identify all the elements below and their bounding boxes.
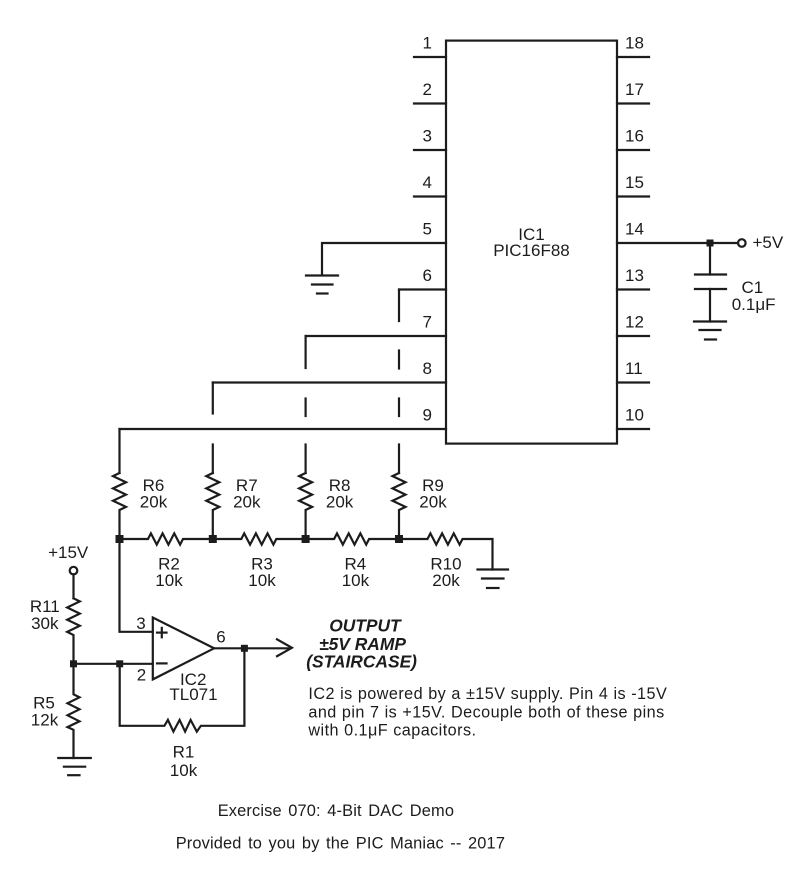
svg-text:R1: R1 (173, 743, 195, 762)
+15V terminal circle (70, 567, 78, 575)
junction node output/feedback (241, 645, 248, 652)
svg-text:18: 18 (625, 34, 644, 53)
svg-text:12k: 12k (31, 711, 59, 730)
svg-text:4: 4 (423, 173, 432, 192)
svg-text:0.1μF: 0.1μF (732, 295, 776, 314)
svg-text:8: 8 (423, 359, 432, 378)
svg-text:10k: 10k (170, 761, 198, 780)
svg-text:6: 6 (216, 628, 225, 647)
wire divider node to op-amp pin 2 (74, 663, 153, 665)
pin 9 stub wire (120, 428, 447, 430)
pin 2 stub (414, 102, 446, 104)
svg-text:3: 3 (423, 127, 432, 146)
svg-text:(STAIRCASE): (STAIRCASE) (306, 651, 417, 671)
ground (pin 5) (306, 276, 338, 294)
svg-text:5: 5 (423, 220, 432, 239)
resistor R10 20k (horizontal) and wire to ground (399, 533, 493, 569)
svg-text:1: 1 (423, 34, 432, 53)
op-amp U2 triangle (IC2 TL071) (153, 618, 214, 680)
junction node R9/R4/R10 (395, 535, 403, 543)
svg-text:7: 7 (423, 313, 432, 332)
svg-text:9: 9 (423, 406, 432, 425)
feedback wire and resistor R1 10k (120, 648, 245, 731)
pin 17 stub (617, 102, 649, 104)
pin 13 stub (617, 288, 649, 290)
svg-text:20k: 20k (419, 493, 447, 512)
svg-text:3: 3 (136, 614, 145, 633)
svg-text:12: 12 (625, 313, 644, 332)
svg-text:10k: 10k (342, 571, 370, 590)
resistor R6 20k (vertical) (113, 473, 126, 539)
svg-text:+15V: +15V (48, 543, 89, 562)
wire ladder output to op-amp pin 3 (120, 539, 153, 632)
svg-text:OUTPUT: OUTPUT (329, 616, 402, 636)
pin 8 stub wire (213, 381, 446, 383)
resistor R8 20k (vertical) (299, 473, 312, 539)
pin 14 wire to +5V (617, 242, 738, 244)
svg-text:and pin 7 is +15V. Decouple bo: and pin 7 is +15V. Decouple both of thes… (308, 703, 664, 721)
svg-text:14: 14 (625, 220, 644, 239)
svg-text:13: 13 (625, 266, 644, 285)
svg-text:20k: 20k (140, 493, 168, 512)
svg-text:10k: 10k (248, 571, 276, 590)
svg-text:16: 16 (625, 127, 644, 146)
op-amp minus input marker (157, 662, 167, 664)
pin 5 stub and wire to ground (322, 243, 446, 275)
svg-text:PIC16F88: PIC16F88 (493, 241, 570, 260)
ground (R10) (478, 570, 509, 589)
ground (C1) (694, 322, 726, 340)
junction node R11/R5 divider (70, 660, 77, 667)
svg-text:20k: 20k (233, 493, 261, 512)
resistor R4 10k (horizontal) (306, 533, 399, 544)
resistor R7 20k (vertical) (206, 473, 219, 539)
wire +15V to R11 (72, 574, 74, 598)
wire pin 8 to R7 (vertical with crossing gaps) (212, 383, 214, 474)
pin 4 stub (414, 195, 446, 197)
svg-text:20k: 20k (432, 571, 460, 590)
note text about IC2 supply (307, 685, 667, 740)
capacitor C1 0.1uF (695, 243, 726, 322)
svg-text:10: 10 (625, 406, 644, 425)
pin 11 stub (617, 381, 649, 383)
svg-text:17: 17 (625, 80, 644, 99)
wire pin 7 to R8 (vertical with crossing gaps) (305, 336, 307, 473)
junction node inverting input / feedback (116, 660, 123, 667)
pin 6 stub wire (399, 288, 446, 290)
resistor R3 10k (horizontal) (213, 533, 306, 544)
resistor R2 10k (horizontal) (120, 533, 213, 544)
svg-text:10k: 10k (155, 571, 183, 590)
output arrow head (277, 639, 292, 656)
+5V terminal circle (738, 239, 746, 247)
junction node R8/R3/R4 (302, 535, 310, 543)
wire pin 6 to R9 (vertical with crossing gaps) (398, 290, 400, 474)
svg-text:2: 2 (423, 80, 432, 99)
svg-text:2: 2 (137, 666, 146, 685)
resistor R11 30k (vertical) (67, 598, 80, 664)
svg-text:11: 11 (625, 359, 643, 378)
svg-text:with 0.1μF capacitors.: with 0.1μF capacitors. (307, 722, 476, 740)
caption title (218, 802, 454, 820)
IC U1 body (IC1 PIC16F88) (446, 41, 617, 444)
svg-text:+5V: +5V (753, 233, 784, 252)
wire op-amp output (214, 647, 290, 649)
wire pin 9 to R6 (vertical) (118, 429, 120, 473)
op-amp plus input marker (157, 628, 167, 637)
pin 1 stub (414, 56, 446, 58)
pin 15 stub (617, 195, 649, 197)
svg-text:IC2 is powered by a ±15V suppl: IC2 is powered by a ±15V supply. Pin 4 i… (308, 685, 667, 703)
caption credit (176, 835, 505, 853)
pin 18 stub (617, 56, 649, 58)
output net label block (306, 616, 417, 672)
svg-text:Exercise 070: 4-Bit DAC Demo: Exercise 070: 4-Bit DAC Demo (218, 802, 454, 820)
junction node R6/R2/op-amp + (116, 535, 124, 543)
svg-text:6: 6 (423, 266, 432, 285)
+5V junction node at C1 (707, 240, 714, 247)
pin 3 stub (414, 149, 446, 151)
junction node R7/R2/R3 (209, 535, 217, 543)
svg-text:30k: 30k (31, 614, 59, 633)
svg-text:20k: 20k (326, 493, 354, 512)
pin 16 stub (617, 149, 649, 151)
svg-text:TL071: TL071 (169, 685, 217, 704)
svg-text:15: 15 (625, 173, 644, 192)
svg-text:Provided to you by the PIC Man: Provided to you by the PIC Maniac -- 201… (176, 835, 505, 853)
resistor R5 12k (vertical) (68, 664, 80, 758)
pin 7 stub wire (306, 335, 446, 337)
ground (R5) (58, 758, 91, 775)
pin 12 stub (617, 335, 649, 337)
pin 10 stub (617, 428, 649, 430)
resistor R9 20k (vertical) (393, 473, 406, 539)
